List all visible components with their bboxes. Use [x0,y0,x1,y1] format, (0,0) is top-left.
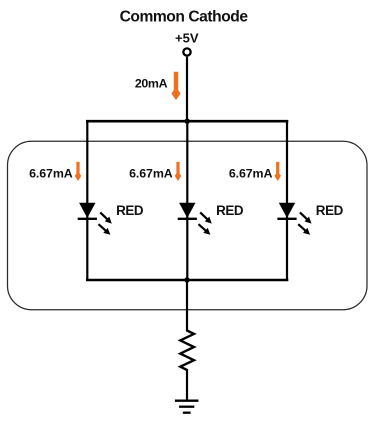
svg-text:RED: RED [216,203,244,218]
svg-text:20mA: 20mA [135,77,168,91]
current arrow 6.67mA (branch 1) [75,162,82,181]
junction dot: top bus / feed [185,119,190,124]
wire: branch 3 (anode drop + cathode drop) [286,120,288,281]
svg-text:6.67mA: 6.67mA [29,166,73,180]
svg-text:6.67mA: 6.67mA [229,166,273,180]
top bus wire [86,120,288,123]
wire: +5V terminal to top bus [186,57,188,123]
wire: bottom bus to resistor [186,280,188,332]
svg-text:Common Cathode: Common Cathode [120,9,249,26]
resistor R1 [180,331,194,371]
ground symbol [175,401,199,413]
junction dot: bottom bus / resistor feed [184,277,189,282]
svg-text:+5V: +5V [175,31,199,46]
svg-text:RED: RED [316,203,344,218]
bottom bus wire (common cathode) [86,279,288,282]
current arrow 6.67mA (branch 2) [175,162,182,181]
svg-text:RED: RED [116,203,144,218]
LED D2 (red) [178,203,212,235]
current arrow 6.67mA (branch 3) [274,162,281,181]
terminal +5V (open circle) [183,48,190,55]
LED module outline (rounded box) [8,141,368,309]
svg-text:6.67mA: 6.67mA [129,166,173,180]
wire: branch 1 (anode drop + cathode drop) [86,120,88,281]
wire: branch 2 (anode drop + cathode drop) [186,120,188,281]
wire: resistor to ground [186,369,188,400]
LED D3 (red) [277,203,311,235]
current arrow 20mA (orange) [171,72,180,100]
LED D1 (red) [78,203,112,235]
